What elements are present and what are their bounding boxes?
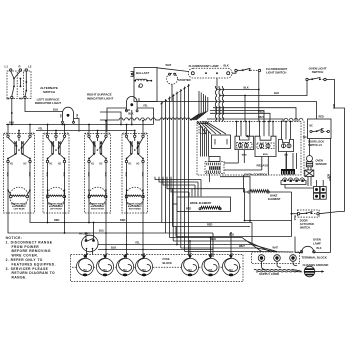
svg-text:YEL: YEL (135, 241, 140, 245)
fuse block (71, 255, 244, 282)
wire BLK ballast bottom long (139, 100, 317, 102)
svg-text:BLK: BLK (128, 112, 133, 116)
connector header with bumps (281, 178, 306, 185)
svg-text:RELAYS: RELAYS (257, 163, 269, 167)
svg-text:LEFT FRONT: LEFT FRONT (50, 209, 63, 211)
svg-text:BLK: BLK (328, 176, 331, 181)
svg-text:BLK: BLK (125, 108, 130, 112)
svg-text:ELEMENT: ELEMENT (268, 197, 281, 201)
wire main harness bus (100, 118, 192, 120)
svg-text:FEATURES EQUIPPED.: FEATURES EQUIPPED. (12, 262, 57, 266)
broil element (177, 197, 231, 212)
svg-text:INDICATOR LIGHT: INDICATOR LIGHT (35, 101, 61, 105)
svg-text:RED: RED (120, 218, 126, 222)
svg-text:RED: RED (28, 172, 30, 177)
svg-text:RANGE.: RANGE. (12, 276, 28, 280)
wire loop around broil right (220, 177, 250, 223)
vertical feeds right fuses (189, 241, 191, 258)
starter (167, 73, 178, 84)
wires connector 2x2 (316, 180, 318, 187)
supply cord wires (254, 261, 302, 272)
svg-text:RED: RED (104, 172, 106, 177)
svg-text:INDICATOR LIGHT: INDICATOR LIGHT (87, 96, 113, 100)
svg-text:RED: RED (54, 218, 60, 222)
wires sensor (307, 167, 309, 170)
oven sensor (306, 156, 312, 167)
diagonal fan in control box (198, 122, 226, 135)
oven light switch (306, 77, 326, 80)
svg-text:1. DISCONNECT RANGE: 1. DISCONNECT RANGE (6, 240, 53, 244)
svg-text:2. REFER ONLY TO: 2. REFER ONLY TO (6, 258, 43, 262)
svg-text:BLK: BLK (293, 216, 296, 221)
svg-text:BLK: BLK (111, 246, 116, 250)
wires oven lamp (295, 252, 302, 254)
svg-text:WHT: WHT (239, 244, 245, 248)
wire to relay 3 (213, 108, 296, 122)
wire RED mid (210, 113, 270, 121)
wire bus YEL left (36, 130, 135, 132)
wire right side BLK vertical (330, 139, 332, 253)
wire door actuated switch right (319, 212, 344, 214)
wire door actuated switch left (292, 213, 298, 215)
svg-text:NC: NC (310, 124, 314, 127)
svg-text:LAMP: LAMP (313, 241, 321, 245)
svg-text:STARTER: STARTER (178, 78, 191, 82)
svg-text:SUPPLY CORD: SUPPLY CORD (259, 272, 279, 276)
svg-text:RED: RED (87, 172, 89, 177)
svg-text:BALLAST: BALLAST (136, 71, 149, 75)
svg-text:ACTUATED: ACTUATED (300, 222, 314, 226)
wires from left indicator light down (62, 123, 64, 124)
wire hops (284, 118, 303, 120)
svg-text:B: B (138, 85, 140, 89)
svg-text:SWITCH #1: SWITCH #1 (308, 143, 322, 147)
wire extra mid (210, 111, 264, 122)
svg-text:FROM POWER: FROM POWER (12, 245, 40, 249)
wire YEL (98, 244, 253, 246)
infinite switch and element right rear (122, 132, 148, 213)
wire RED lower mid (173, 226, 251, 228)
chassis ground symbol (304, 266, 324, 277)
svg-text:30A: 30A (123, 269, 128, 272)
svg-text:CHASSIS GROUND: CHASSIS GROUND (303, 263, 329, 267)
svg-text:RED: RED (186, 208, 191, 211)
nested wires below oven control (6, 177, 329, 282)
fuse 7 (222, 255, 239, 276)
svg-text:WHT: WHT (166, 63, 172, 67)
svg-text:RETURN DIAGRAM TO: RETURN DIAGRAM TO (12, 271, 56, 275)
wire BLK short bus (100, 112, 121, 125)
svg-text:BLK: BLK (53, 108, 58, 112)
svg-text:WHT: WHT (258, 115, 264, 119)
alternate switch (5, 65, 32, 101)
svg-text:RED: RED (141, 172, 143, 177)
wire WHT mid (207, 119, 283, 122)
wire BLK lower (176, 236, 292, 238)
wires into relays from box top (236, 121, 292, 140)
svg-text:NO: NO (303, 136, 307, 139)
svg-text:YEL: YEL (143, 104, 148, 108)
bake element (248, 190, 269, 193)
svg-text:RIGHT FRONT: RIGHT FRONT (91, 209, 105, 211)
svg-text:BLK: BLK (76, 114, 78, 119)
svg-text:OVEN: OVEN (316, 159, 324, 163)
wire lamp to switches BLK (232, 72, 236, 74)
fuse 6 (202, 255, 219, 276)
wires below relays (224, 150, 287, 175)
left surface indicator light (62, 107, 75, 123)
wire bus BLK left (6, 124, 154, 126)
wires right column oven control (285, 122, 314, 189)
svg-text:L1: L1 (5, 65, 9, 69)
svg-text:LEFT REAR: LEFT REAR (14, 208, 25, 211)
oven control box (197, 122, 301, 176)
relay bake (235, 136, 254, 156)
fuse 2 (96, 255, 113, 276)
fluorescent light switch (235, 68, 261, 71)
svg-text:DOOR: DOOR (300, 218, 308, 222)
wires blocks to lower buses (47, 213, 90, 234)
infinite switch and element right front (85, 132, 111, 213)
small connector box P1 (199, 124, 206, 134)
svg-text:NOTICE:: NOTICE: (6, 236, 23, 240)
svg-text:SENSOR: SENSOR (316, 162, 327, 166)
relay dlb (279, 140, 294, 157)
svg-text:L2: L2 (28, 65, 32, 69)
wire harness vertical bundle (161, 84, 190, 255)
svg-text:BEFORE REMOVING: BEFORE REMOVING (12, 249, 51, 253)
svg-text:30A: 30A (103, 269, 108, 272)
svg-text:YEL: YEL (38, 127, 43, 131)
svg-text:RIGHT REAR: RIGHT REAR (129, 208, 142, 211)
oven lamp (300, 246, 315, 253)
wires to terminal block (169, 237, 293, 252)
wire BLK to left indicator light (25, 99, 63, 112)
connector comb 3 (281, 169, 295, 175)
notice text (6, 236, 56, 280)
svg-text:DOOR LOCK: DOOR LOCK (308, 140, 324, 144)
connector block P3 (209, 157, 220, 162)
wire bus BLU bottom (8, 213, 213, 233)
wires switch blocks to buses (7, 120, 144, 135)
door actuated switch (297, 210, 319, 217)
infinite switch and element left rear (4, 132, 35, 213)
door lock switch #1 (303, 119, 331, 139)
terminal block (252, 252, 300, 264)
svg-text:LIGHT SWITCH: LIGHT SWITCH (266, 71, 286, 75)
wires to left fuses (105, 213, 144, 259)
svg-text:BAKE: BAKE (270, 193, 278, 197)
svg-text:OVEN CONTROL: OVEN CONTROL (244, 172, 268, 176)
wires bake element (244, 175, 249, 192)
svg-text:15A: 15A (83, 269, 88, 272)
wires broil element (172, 188, 174, 227)
svg-text:RED: RED (319, 115, 325, 119)
fuse 3 (116, 255, 133, 276)
svg-text:BLK: BLK (211, 237, 216, 241)
svg-text:SWITCH: SWITCH (300, 225, 310, 229)
wire from alternate switch to bus (11, 99, 13, 125)
svg-text:BROIL ELEMENT: BROIL ELEMENT (190, 201, 212, 205)
oven control entry dots (197, 123, 208, 124)
fuse entry ticks (85, 253, 233, 255)
fuse 1 (76, 255, 93, 276)
svg-text:P: P (19, 65, 21, 69)
svg-text:TERMINAL BLOCK: TERMINAL BLOCK (302, 256, 328, 260)
wire RED right bottom (245, 220, 292, 222)
wire bus RED bottom (30, 213, 252, 223)
svg-text:WHT: WHT (273, 246, 279, 249)
svg-text:RED: RED (63, 172, 65, 177)
svg-text:20A: 20A (208, 269, 213, 272)
connector 2x2 (314, 187, 327, 200)
svg-text:20A: 20A (188, 269, 193, 272)
wire oven light switch left (219, 81, 307, 96)
svg-text:RED: RED (125, 172, 127, 177)
svg-text:BLK: BLK (274, 91, 279, 95)
svg-text:SWITCH: SWITCH (43, 90, 56, 94)
vertical hop wires (216, 86, 224, 122)
svg-text:RED: RED (46, 172, 48, 177)
wires right indicator light (107, 108, 127, 132)
connector comb assembly (205, 162, 224, 174)
wire oven light switch right BLK (326, 80, 344, 212)
right surface indicator light (126, 96, 139, 111)
svg-text:BLK: BLK (244, 86, 249, 90)
svg-text:BLU: BLU (99, 228, 104, 232)
svg-text:BLK: BLK (224, 64, 229, 68)
svg-text:BLK: BLK (332, 104, 335, 109)
wire BLK hi limit (98, 248, 213, 250)
wire ballast to lamp WHT (157, 68, 189, 72)
svg-text:20A: 20A (229, 269, 234, 272)
svg-text:RED: RED (6, 172, 8, 177)
fuse row dashed line (72, 266, 241, 268)
svg-text:WIRE COVER.: WIRE COVER. (12, 254, 39, 258)
starter drop wire (171, 84, 173, 101)
ballast terminal bracket (131, 72, 134, 77)
fuse 5 (181, 255, 198, 276)
svg-text:3. SERVICER PLEASE: 3. SERVICER PLEASE (6, 267, 49, 271)
svg-text:FUSE: FUSE (163, 257, 170, 261)
svg-text:BLOCK: BLOCK (163, 261, 172, 265)
infinite switch and element left front (43, 132, 69, 213)
oven control left module (212, 135, 231, 149)
svg-text:FLUORESCENT LAMP: FLUORESCENT LAMP (189, 64, 219, 68)
fuse 4 (135, 255, 152, 276)
relay broil (255, 136, 276, 156)
wires hi limit (85, 233, 87, 240)
sensor connector (305, 170, 314, 177)
svg-text:RED: RED (207, 223, 213, 227)
svg-text:30A: 30A (142, 269, 147, 272)
fluorescent lamp (189, 68, 233, 78)
svg-text:SWITCH: SWITCH (312, 70, 324, 74)
wire harness diagonals (190, 91, 208, 120)
svg-text:BLK: BLK (317, 247, 322, 250)
wires inside control left column (201, 125, 210, 182)
ballast (134, 68, 157, 102)
